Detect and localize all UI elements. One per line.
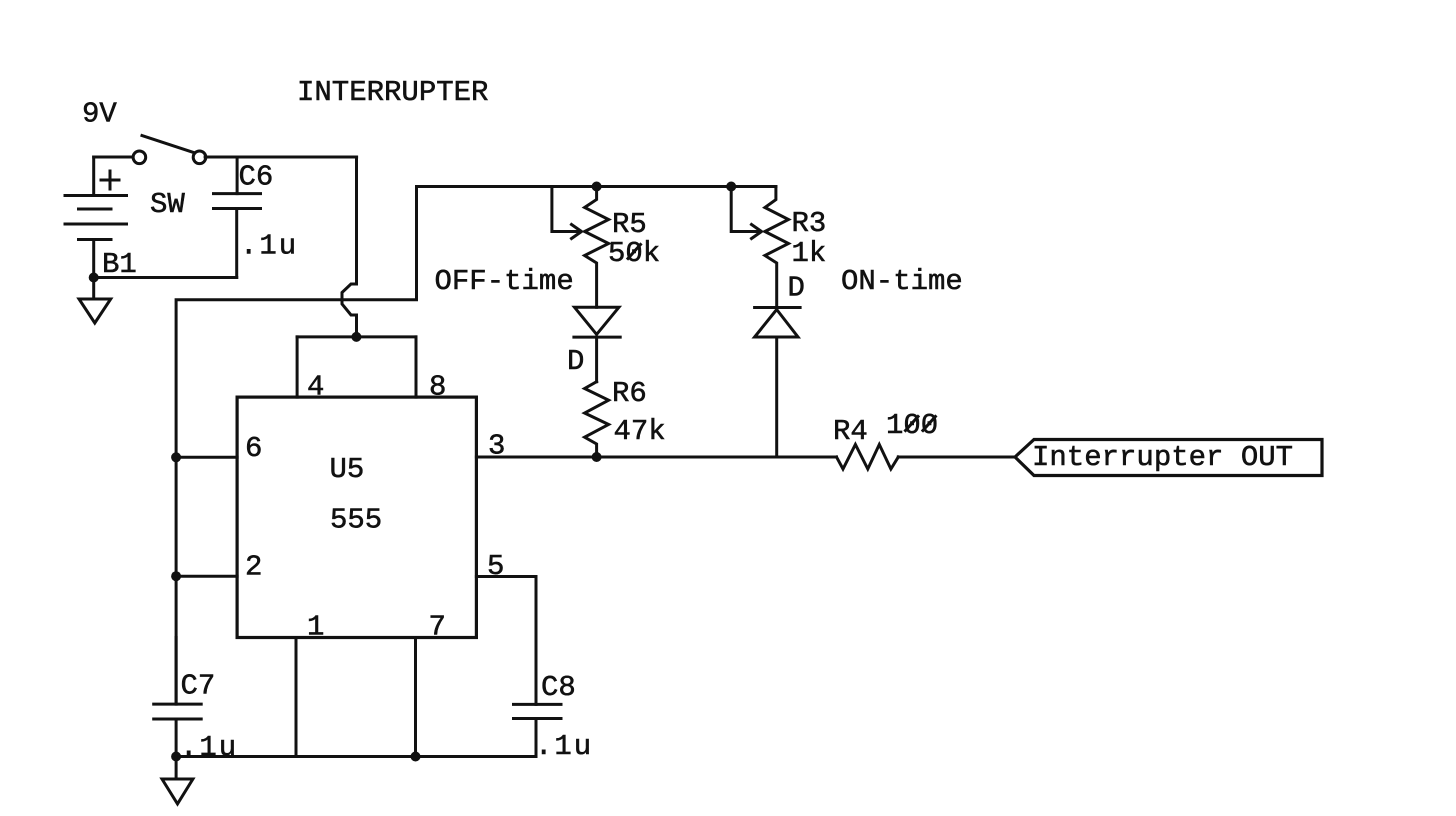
battery B1: [65, 157, 127, 278]
IC U5 555 timer box: [237, 397, 476, 637]
node R5 top junction: [592, 182, 602, 192]
svg-text:.1u: .1u: [180, 731, 238, 764]
wire mid horizontal (pins 2,6 net): [176, 187, 416, 705]
wire pin 6: [176, 456, 237, 459]
svg-text:R6: R6: [612, 377, 647, 410]
svg-text:2: 2: [245, 551, 262, 584]
ground under battery: [79, 278, 111, 324]
wire IC cap rail pins 4-8: [297, 335, 416, 338]
svg-text:9V: 9V: [82, 98, 117, 131]
svg-text:R3: R3: [792, 207, 827, 240]
slashed zero marks: [628, 245, 935, 431]
diode D (right, cathode up): [755, 308, 801, 458]
svg-text:C6: C6: [239, 161, 274, 194]
wire C6 rail down with hop over mid wire: [342, 157, 357, 337]
svg-text:4: 4: [307, 371, 324, 404]
node R6 bottom junction: [592, 452, 602, 462]
wire top rail: [417, 185, 776, 188]
svg-text:555: 555: [330, 504, 382, 537]
node pin 6 junction: [171, 452, 181, 462]
node cap rail junction: [351, 332, 361, 342]
node pin 2 junction: [171, 571, 181, 581]
wiper arrow of R3: [731, 187, 761, 239]
svg-text:.1u: .1u: [535, 730, 593, 763]
svg-text:5: 5: [487, 550, 504, 583]
svg-text:Interrupter OUT: Interrupter OUT: [1032, 441, 1293, 474]
capacitor C7: [154, 638, 202, 757]
wire pin 8 stub: [415, 337, 418, 397]
wire bottom ground rail: [176, 755, 536, 758]
wire pin 2: [176, 575, 237, 578]
resistor R4: [837, 445, 899, 470]
node C7 bottom junction: [171, 752, 181, 762]
capacitor C6: [214, 157, 261, 278]
wiper arrow of R5: [552, 187, 582, 239]
svg-text:SW: SW: [150, 188, 185, 221]
wire pin 5 to C8: [476, 577, 536, 705]
svg-text:D: D: [567, 345, 584, 378]
svg-text:C7: C7: [181, 670, 216, 703]
node B1 junction: [89, 273, 99, 283]
svg-text:C8: C8: [541, 671, 576, 704]
wire pin 7 stub: [414, 638, 417, 757]
capacitor C8: [514, 704, 562, 756]
svg-text:47k: 47k: [614, 415, 666, 448]
svg-text:U5: U5: [330, 453, 365, 486]
wire B1 node to C6 bottom: [94, 276, 237, 279]
wire pin 1 stub: [295, 638, 298, 757]
wire R4 to output flag: [898, 456, 1015, 459]
svg-text:7: 7: [429, 611, 446, 644]
svg-text:D: D: [788, 272, 805, 305]
svg-text:.1u: .1u: [240, 230, 298, 263]
svg-text:100: 100: [886, 409, 938, 442]
node flag Interrupter OUT: [1015, 440, 1322, 476]
wire pin 3 output: [476, 456, 836, 459]
resistor R5 (pot body): [585, 187, 609, 308]
svg-text:OFF-time: OFF-time: [435, 265, 574, 298]
svg-text:ON-time: ON-time: [841, 265, 963, 298]
resistor R6: [585, 382, 609, 457]
svg-text:R4: R4: [833, 415, 868, 448]
svg-text:1: 1: [307, 611, 324, 644]
svg-text:1k: 1k: [792, 237, 827, 270]
resistor R3 (pot body): [765, 187, 789, 308]
svg-text:8: 8: [429, 371, 446, 404]
node R3 wiper junction: [726, 182, 736, 192]
switch SW: [133, 136, 206, 164]
ground under C7: [162, 757, 193, 804]
wire pin 4 stub: [296, 337, 299, 397]
wire switch to C6 to corner: [205, 156, 357, 159]
diode D (left, cathode down): [574, 307, 620, 381]
svg-text:INTERRUPTER: INTERRUPTER: [297, 76, 488, 109]
svg-text:6: 6: [245, 432, 262, 465]
wire battery top to switch: [94, 156, 133, 159]
node pin 7 junction: [411, 752, 421, 762]
